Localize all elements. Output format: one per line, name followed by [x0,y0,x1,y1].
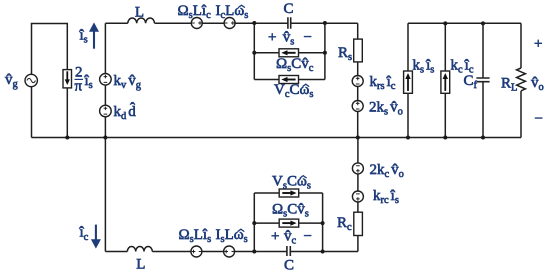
svg-text:π: π [75,79,83,95]
svg-text:L: L [136,257,145,273]
node: bottom rail left [252,250,256,254]
node: bus Rs [356,136,360,140]
node: mid rail left [252,51,256,55]
inductor L (bottom) [127,247,152,252]
source 2ks vo [352,101,363,112]
svg-text:+: + [534,36,542,52]
svg-text:VsCωs: VsCωs [272,174,311,192]
dependent source Vc C omega_s (box, left arrow) [279,76,299,84]
current arrow ic (blue, down) [95,225,97,242]
wire: Rc branch vertical x=357.9 [357,138,359,252]
hat of omega in Vc C omega_s [302,84,309,86]
svg-text:krsîc: krsîc [370,74,396,92]
dependent source ks is (box, up arrow) [404,71,413,93]
svg-text:+: + [268,30,276,46]
wire: top rail y=23 from left branch to Rs branch [105,22,357,24]
resistor Rc [354,212,363,235]
source kv vg [100,74,112,86]
source Is L omega_s (bottom) [224,246,235,257]
svg-text:L: L [135,5,144,21]
capacitor Cf [476,78,489,82]
source vg (sine) [25,74,37,86]
svg-text:Rc: Rc [337,215,352,233]
capacitor C (top) [288,17,291,29]
svg-text:ΩsCv̂s: ΩsCv̂s [272,202,309,220]
source krc is [352,191,363,202]
svg-text:v̂g: v̂g [5,72,19,90]
dependent source Omega_s C vc (box, left arrow) [279,49,299,57]
svg-text:C: C [284,258,294,274]
svg-text:kdd̂: kdd̂ [114,102,137,122]
node: bottom C-section mid-left [252,221,256,225]
svg-text:−: − [304,30,312,46]
wire: bottom rail y=251.5 [105,251,358,253]
node: bottom rail right [321,250,325,254]
capacitor C (bottom) [287,246,290,256]
dependent source 2/pi is (box, down arrow) [63,70,72,88]
wire: middle bus y=137.5 [32,137,522,139]
current arrow is (blue, up) [93,31,95,49]
svg-text:−: − [535,111,543,127]
node: Cf top [481,21,485,25]
node: bus 2pi [65,136,69,140]
svg-text:C: C [284,1,294,17]
node: bus Cf [481,136,485,140]
svg-text:2kcv̂o: 2kcv̂o [370,162,404,180]
source kd d [100,105,112,117]
wire: kc branch vertical [444,23,446,137]
wire: input loop (vg / 2-pi box) [32,24,68,138]
dependent source kc ic (box, up arrow) [441,71,450,93]
svg-text:IcLωs: IcLωs [216,3,249,21]
node: top C-section left [252,21,256,25]
resistor RL (zigzag) [517,68,526,91]
svg-text:Cf: Cf [464,73,478,91]
source Omega_s L ic [191,18,202,29]
svg-text:ksîs: ksîs [413,58,435,76]
node: top C-section right [323,21,327,25]
wire: ks branch vertical [407,23,409,137]
svg-text:2ksv̂o: 2ksv̂o [369,100,403,118]
svg-text:v̂c: v̂c [284,229,297,247]
resistor Rs [354,39,363,62]
svg-text:îs: îs [84,73,93,91]
wire: RL branch vertical [520,23,522,137]
svg-text:krcîs: krcîs [373,188,399,206]
hat of omega in Is L omega_s [238,229,245,231]
svg-text:ΩsLîs: ΩsLîs [179,227,212,245]
source Omega_s L is (bottom) [191,246,202,257]
node: mid rail right [323,51,327,55]
svg-text:RL: RL [501,76,517,94]
node: bus ks [406,136,410,140]
svg-text:kvv̂g: kvv̂g [114,73,142,91]
svg-text:+: + [271,229,279,245]
dependent source Omega_s C vs (box, right arrow) [279,219,299,227]
node: bottom C-section mid-right [321,221,325,225]
hat of omega in Ic L omega_s [238,5,245,7]
svg-text:Rs: Rs [338,45,352,63]
node: bus kc [443,136,447,140]
svg-text:−: − [304,229,312,245]
node: kc top [443,21,447,25]
svg-text:îc: îc [79,225,89,244]
svg-text:îs: îs [79,28,88,46]
wire: left vertical branch x=105.4 top wire to bottom wire [104,23,106,251]
inductor L (top) [128,18,155,23]
hat of omega in Vs C omega_s [300,176,307,178]
wire: top C-section frame [254,23,325,79]
source krs ic [352,76,363,87]
source 2kc vo [352,163,363,174]
node: bus left branch [103,136,107,140]
source Ic L omega_s [224,18,235,29]
svg-text:IsLωs: IsLωs [216,227,248,245]
dependent source Vs C omega_s (box, right arrow) [279,189,299,197]
wire: Cf branch vertical [482,23,484,137]
wire: output top rail y=23.4 [408,22,521,24]
wire: bottom C-section frame [254,193,322,252]
svg-text:ΩsLîc: ΩsLîc [178,3,212,21]
svg-text:v̂o: v̂o [531,75,544,93]
wire: Rs branch vertical x=357.7 [357,23,359,137]
svg-text:ΩsCv̂c: ΩsCv̂c [276,56,314,74]
svg-text:v̂s: v̂s [283,30,295,48]
